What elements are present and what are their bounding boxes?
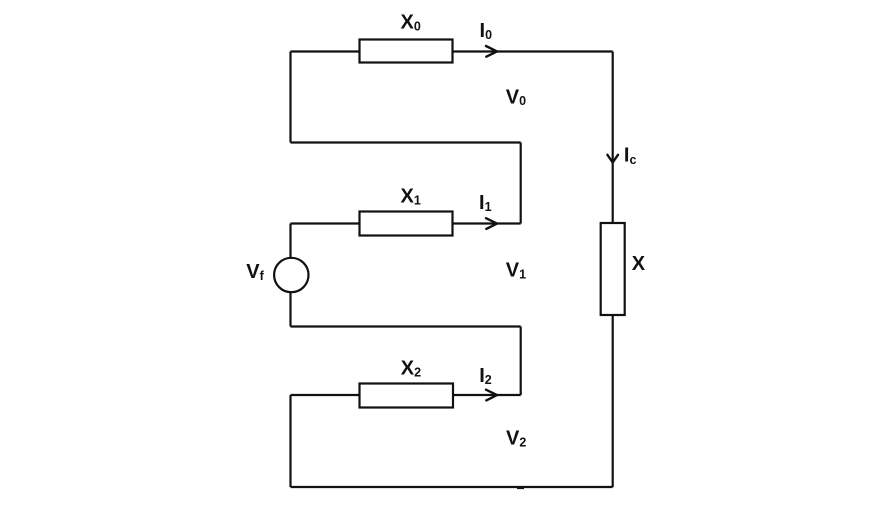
svg-text:X2: X2 [401,358,421,380]
wire: X2 branch [291,394,521,396]
arrow Ic [607,155,618,163]
svg-text:I2: I2 [479,365,492,387]
svg-text:Ic: Ic [624,145,637,168]
svg-text:X0: X0 [401,11,421,33]
wire: vertical drop to X2 output node [520,327,522,396]
svg-text:I0: I0 [480,20,493,42]
arrow I1 [486,218,497,229]
wire: top rail [291,50,613,52]
svg-text:I1: I1 [479,192,492,214]
wire: vertical drop to X1 output node [520,143,522,224]
wire: left vertical upper segment [289,52,291,143]
wire: positive-sequence return (y=326) [291,325,521,327]
svg-text:X1: X1 [401,185,421,207]
wire: bottom rail [291,486,613,488]
arrow I2 [486,390,497,401]
wire: left vertical lower segment [289,395,291,487]
svg-text:Vf: Vf [246,261,264,283]
reactance X (fault impedance) [601,223,625,315]
wire: right vertical lower [612,315,614,487]
wire: right vertical upper (Ic) [612,52,614,224]
wire: Vf top lead [289,224,291,258]
svg-text:V0: V0 [506,87,526,109]
resistor X1 [360,212,453,236]
svg-text:V2: V2 [506,428,526,450]
arrow I0 [486,46,497,57]
svg-text:X: X [632,253,646,275]
svg-text:V1: V1 [506,260,526,282]
source Vf [274,258,308,292]
resistor X2 [360,384,454,408]
wire: X1 branch [291,222,521,224]
node: junction tick on bottom rail [517,487,524,489]
wire: Vf bottom lead [289,292,291,326]
resistor X0 [360,40,453,63]
wire: zero-sequence return (y=142) [291,141,521,143]
